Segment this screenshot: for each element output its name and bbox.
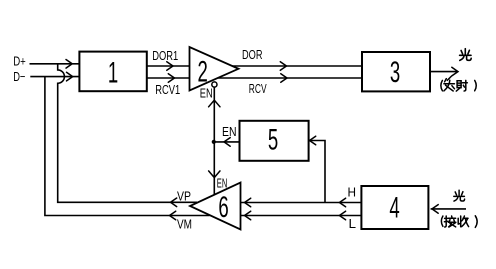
收	[457, 218, 459, 224]
arrow into block1 D+	[66, 60, 72, 69]
arrow into block5 right	[310, 136, 316, 145]
wire L line	[241, 215, 362, 217]
block 4	[361, 186, 428, 229]
svg-text:VM: VM	[177, 217, 192, 232]
wire RCV	[218, 77, 362, 79]
arrow into block1 D-	[67, 72, 73, 81]
arrow L into triangle6	[245, 211, 251, 220]
arrow EN down toward triangle6	[209, 171, 220, 178]
CJK （接收） receive caption	[441, 216, 477, 228]
arrow L from block4	[339, 211, 345, 220]
junction dot EN node	[212, 140, 216, 144]
svg-text:3: 3	[390, 57, 400, 89]
接	[445, 216, 447, 227]
svg-text:L: L	[349, 216, 357, 231]
svg-text:H: H	[348, 185, 357, 200]
block 5	[240, 121, 309, 161]
enable bubble on triangle 2	[212, 82, 217, 87]
svg-text:4: 4	[389, 192, 399, 224]
arrow VP left	[171, 198, 177, 207]
block 3	[362, 52, 430, 91]
wire VM feedback: D- down and right to triangle 6 apex	[45, 77, 210, 216]
buffer triangle U2	[190, 47, 239, 91]
svg-text:VP: VP	[177, 189, 191, 204]
arrow H from block4	[339, 198, 345, 207]
wire D+ line	[30, 63, 80, 65]
svg-text:5: 5	[268, 124, 278, 156]
wire RCV1	[147, 77, 190, 79]
wire DOR	[232, 65, 362, 67]
CJK 光 (receive side)	[454, 190, 465, 201]
arrow DOR toward block3	[280, 62, 286, 71]
paren left	[441, 80, 443, 90]
wire block5 right input from H line	[309, 141, 325, 203]
CJK （发射） transmit caption	[441, 76, 476, 91]
buffer triangle U6 (points left)	[190, 183, 241, 230]
svg-text:2: 2	[198, 56, 208, 88]
arrow RCV1 into triangle2	[168, 74, 174, 83]
wire DOR1	[147, 65, 190, 67]
block 1	[79, 52, 146, 92]
wire block4 optical input	[431, 208, 466, 210]
svg-text:D−: D−	[13, 69, 25, 84]
射	[457, 81, 461, 88]
paren left	[441, 216, 443, 226]
arrow EN up toward bubble	[209, 100, 220, 107]
发	[447, 76, 451, 80]
arrow VM left	[170, 211, 176, 220]
wire H line	[241, 202, 362, 204]
wire EN vertical from bubble to triangle 6	[213, 87, 215, 195]
CJK 光 (transmit side)	[460, 49, 472, 61]
svg-text:6: 6	[218, 192, 228, 224]
svg-text:EN: EN	[222, 124, 237, 139]
paren right	[475, 80, 477, 90]
arrow DOR1 into triangle2	[167, 62, 173, 71]
arrow RCV toward block3	[281, 74, 287, 83]
arrow EN left into junction	[224, 138, 230, 147]
wire block3 optical output	[431, 71, 457, 73]
wire D- line	[30, 76, 79, 78]
svg-text:D+: D+	[13, 54, 26, 69]
svg-text:RCV: RCV	[249, 81, 267, 96]
svg-text:DOR1: DOR1	[152, 48, 178, 63]
arrow H into triangle6	[245, 198, 251, 207]
svg-text:RCV1: RCV1	[155, 82, 180, 97]
arrow block3 output	[452, 67, 458, 76]
svg-text:EN: EN	[217, 176, 228, 191]
svg-text:DOR: DOR	[242, 47, 263, 62]
paren right	[475, 216, 477, 228]
arrow into block4 right	[432, 205, 438, 214]
wire VP feedback with hop over D- line	[58, 64, 197, 203]
svg-text:1: 1	[108, 57, 118, 89]
wire EN from block 5 to junction	[214, 141, 239, 143]
